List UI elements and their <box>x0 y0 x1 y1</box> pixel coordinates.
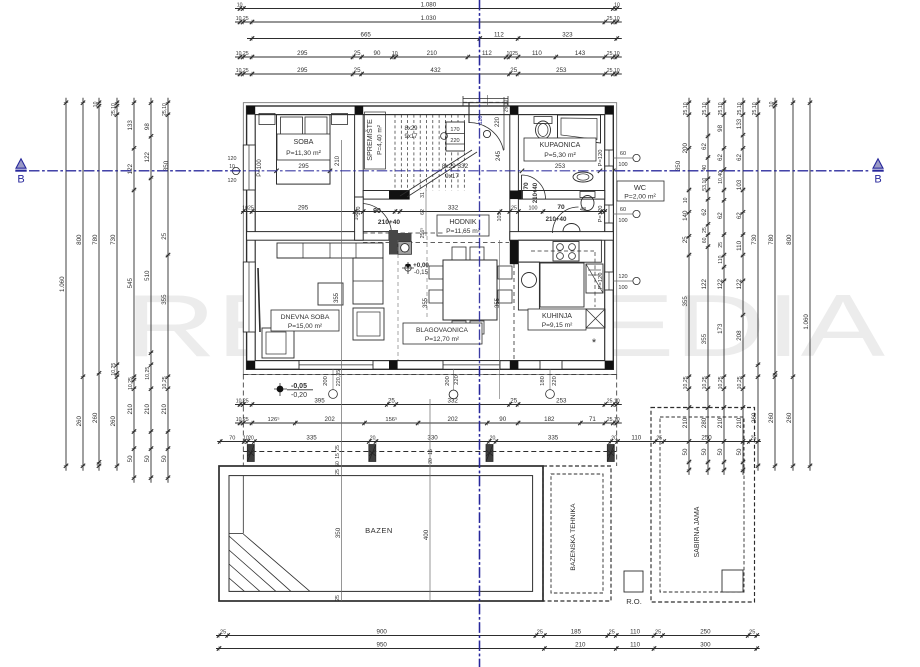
svg-text:25: 25 <box>220 630 226 636</box>
interior dim chain <box>241 205 607 214</box>
svg-text:25,10: 25,10 <box>162 103 168 116</box>
coffee table <box>318 283 343 305</box>
svg-text:KUPAONICA: KUPAONICA <box>540 142 581 149</box>
svg-text:355: 355 <box>701 333 708 344</box>
armchair <box>353 308 384 340</box>
svg-text:25: 25 <box>161 232 168 239</box>
kupaonica door <box>522 175 546 199</box>
svg-text:25: 25 <box>354 67 361 74</box>
svg-text:202: 202 <box>448 416 459 423</box>
svg-text:B: B <box>874 174 881 186</box>
svg-text:25: 25 <box>510 398 517 405</box>
svg-text:122: 122 <box>717 279 724 290</box>
right dim chain R6 <box>768 98 777 471</box>
svg-text:HODNIK: HODNIK <box>449 219 477 226</box>
column <box>355 106 364 115</box>
svg-text:110: 110 <box>630 642 640 649</box>
axis B-B horizontal <box>29 170 869 172</box>
wc door <box>553 207 579 233</box>
svg-text:25: 25 <box>656 436 662 442</box>
svg-text:25: 25 <box>702 227 708 233</box>
sabirna jama shaft <box>722 570 743 592</box>
svg-text:730: 730 <box>110 234 117 245</box>
svg-text:280: 280 <box>701 417 708 428</box>
svg-text:122: 122 <box>144 151 151 162</box>
kitchen island <box>540 263 584 307</box>
pool dim verticals <box>341 140 343 601</box>
svg-text:25: 25 <box>655 630 661 636</box>
svg-text:9x17: 9x17 <box>404 134 418 140</box>
entry door <box>468 102 470 123</box>
svg-text:260: 260 <box>786 412 793 423</box>
svg-text:105: 105 <box>497 213 503 222</box>
svg-text:25: 25 <box>749 630 755 636</box>
svg-text:355: 355 <box>334 292 340 303</box>
top dim chain 4 <box>235 50 622 59</box>
svg-text:8x29 332: 8x29 332 <box>442 163 469 170</box>
column <box>605 361 614 370</box>
svg-text:110: 110 <box>736 240 743 250</box>
svg-text:50: 50 <box>717 448 724 455</box>
sofa <box>277 243 383 258</box>
wall wc bottom / kitchen top <box>510 232 614 241</box>
column <box>247 232 256 241</box>
svg-text:140: 140 <box>682 210 689 221</box>
column <box>389 361 398 370</box>
svg-text:25,10: 25,10 <box>737 102 743 115</box>
svg-text:9x17: 9x17 <box>445 173 459 180</box>
svg-text:20: 20 <box>370 436 376 442</box>
svg-text:210+40: 210+40 <box>378 219 401 226</box>
svg-text:800: 800 <box>786 234 793 245</box>
svg-text:220: 220 <box>454 375 460 385</box>
left dim chain L6 <box>144 98 153 483</box>
svg-text:15: 15 <box>428 449 434 455</box>
door soba <box>355 197 364 240</box>
window kitchen bottom <box>540 361 562 370</box>
svg-text:10: 10 <box>392 51 398 57</box>
svg-text:15: 15 <box>335 453 341 459</box>
fridge <box>586 264 603 293</box>
svg-text:110: 110 <box>532 50 542 57</box>
svg-text:50: 50 <box>682 448 689 455</box>
svg-text:98: 98 <box>717 124 724 131</box>
column <box>247 106 256 115</box>
terrace dashed right <box>616 375 618 467</box>
house outer insulation <box>243 103 616 375</box>
kupaonica toilet <box>534 117 552 124</box>
svg-text:112: 112 <box>494 32 504 39</box>
svg-text:100: 100 <box>618 162 627 168</box>
svg-text:210+40: 210+40 <box>546 216 567 223</box>
terrace dashed bottom <box>243 374 616 376</box>
house outer wall <box>247 106 614 369</box>
right dim chain R4 <box>736 98 745 475</box>
svg-text:10: 10 <box>683 197 689 203</box>
svg-text:P=11,30 m²: P=11,30 m² <box>286 150 322 157</box>
svg-text:25,10: 25,10 <box>111 103 117 116</box>
svg-text:105: 105 <box>354 212 360 221</box>
bath sink <box>573 172 593 182</box>
bed <box>277 115 331 185</box>
svg-text:250: 250 <box>701 435 712 442</box>
wc toilet <box>580 192 595 198</box>
column <box>355 361 364 370</box>
svg-text:1025: 1025 <box>507 51 519 57</box>
svg-text:253: 253 <box>556 67 567 74</box>
svg-text:295: 295 <box>297 67 308 74</box>
pool steps <box>229 476 310 592</box>
svg-text:395: 395 <box>314 398 325 405</box>
svg-text:SPREMIŠTE: SPREMIŠTE <box>365 119 374 161</box>
svg-text:323: 323 <box>562 32 573 39</box>
svg-text:60: 60 <box>620 207 626 213</box>
svg-text:335: 335 <box>306 435 317 442</box>
right dim chain R7 <box>786 98 795 471</box>
svg-text:50: 50 <box>127 455 134 462</box>
axis marker right <box>873 159 883 168</box>
svg-text:210: 210 <box>682 417 689 428</box>
svg-text:P=12,70 m²: P=12,70 m² <box>425 336 460 343</box>
column <box>247 361 256 370</box>
svg-text:220: 220 <box>495 116 501 127</box>
svg-text:202: 202 <box>325 416 336 423</box>
dnevna label <box>271 310 339 331</box>
svg-text:53,10: 53,10 <box>702 178 708 191</box>
svg-text:62: 62 <box>736 154 743 161</box>
window dnevna left <box>243 262 255 332</box>
entry landing <box>463 102 508 104</box>
svg-text:180: 180 <box>540 376 546 386</box>
svg-text:BAZEN: BAZEN <box>365 526 393 535</box>
svg-text:43: 43 <box>580 207 586 213</box>
svg-text:P=15,00 m²: P=15,00 m² <box>288 323 323 330</box>
svg-text:10: 10 <box>237 3 243 9</box>
svg-text:730: 730 <box>751 234 758 245</box>
svg-text:25: 25 <box>335 595 341 601</box>
wc label <box>617 181 664 201</box>
svg-text:110: 110 <box>631 435 641 442</box>
svg-text:50: 50 <box>161 455 168 462</box>
svg-text:10,25: 10,25 <box>236 68 249 74</box>
svg-text:170: 170 <box>450 127 459 133</box>
svg-text:31: 31 <box>420 192 426 198</box>
pergola line <box>243 451 616 453</box>
svg-text:185: 185 <box>571 629 582 636</box>
svg-text:P=120: P=120 <box>598 150 604 167</box>
tv <box>258 268 260 332</box>
svg-text:70: 70 <box>229 436 235 442</box>
top dim chain 1 <box>235 2 622 11</box>
svg-text:210: 210 <box>575 642 586 649</box>
svg-text:220: 220 <box>552 376 558 386</box>
right dim chain R8 <box>803 98 812 471</box>
svg-text:25: 25 <box>354 50 361 57</box>
pool inner <box>229 476 533 592</box>
svg-text:295: 295 <box>298 163 309 170</box>
svg-text:350: 350 <box>163 160 170 171</box>
dishwasher X <box>586 309 605 328</box>
svg-text:-0,15: -0,15 <box>414 269 429 276</box>
svg-text:WC: WC <box>634 183 647 192</box>
svg-text:200: 200 <box>323 376 329 386</box>
svg-text:10,25: 10,25 <box>236 417 249 423</box>
svg-text:25: 25 <box>682 236 689 243</box>
svg-text:300: 300 <box>700 642 711 649</box>
R.O. box <box>624 571 643 592</box>
svg-text:350: 350 <box>335 527 342 538</box>
svg-text:10,25: 10,25 <box>683 376 689 389</box>
svg-text:110: 110 <box>718 255 724 263</box>
svg-text:220,35: 220,35 <box>336 370 342 387</box>
svg-text:210: 210 <box>427 50 438 57</box>
window right wall <box>605 272 614 290</box>
wall below stairs <box>363 191 409 200</box>
svg-text:120: 120 <box>618 274 627 280</box>
stair cut line <box>400 150 472 196</box>
bathtub <box>558 115 601 143</box>
svg-text:10,25: 10,25 <box>718 376 724 389</box>
left dim chain L3 <box>92 98 101 471</box>
pergola post <box>369 445 376 462</box>
svg-text:P=9,15 m²: P=9,15 m² <box>542 322 573 329</box>
svg-text:10: 10 <box>614 3 620 9</box>
svg-text:10,25: 10,25 <box>737 376 743 389</box>
svg-text:62: 62 <box>736 212 743 219</box>
svg-text:432: 432 <box>430 67 441 74</box>
kupaonica label <box>524 138 596 161</box>
svg-text:20: 20 <box>428 458 434 464</box>
chain below house 1 <box>235 398 622 407</box>
svg-text:210: 210 <box>127 404 134 415</box>
svg-text:100: 100 <box>618 285 627 291</box>
svg-text:90: 90 <box>499 416 506 423</box>
house inner wall face <box>255 115 605 361</box>
left dim chain L4 <box>110 98 119 471</box>
hodnik label <box>437 215 489 236</box>
svg-text:25: 25 <box>335 445 341 451</box>
svg-text:10,25: 10,25 <box>128 377 134 390</box>
window right wall <box>605 150 614 166</box>
chain below house 2 <box>235 416 622 425</box>
svg-text:62: 62 <box>420 209 426 215</box>
terrace dashed left <box>242 375 244 467</box>
svg-text:25,10: 25,10 <box>607 68 620 74</box>
svg-text:P=2,00 m²: P=2,00 m² <box>624 194 656 201</box>
chair lower left <box>262 328 294 358</box>
svg-text:900: 900 <box>377 629 388 636</box>
sabirna jama outer <box>651 408 755 603</box>
wc sink <box>563 224 580 232</box>
svg-text:25,10: 25,10 <box>607 16 620 22</box>
svg-text:10: 10 <box>93 101 99 107</box>
svg-text:156⁵: 156⁵ <box>385 416 398 423</box>
right dim chain R1 <box>682 98 691 475</box>
wall kitchen/dining lower part <box>510 240 519 264</box>
svg-text:25,10: 25,10 <box>752 102 758 115</box>
svg-text:210: 210 <box>144 404 151 415</box>
svg-text:122: 122 <box>701 279 708 290</box>
svg-text:355: 355 <box>423 297 429 308</box>
svg-text:SOBA: SOBA <box>294 137 314 146</box>
wall soba/spremiste <box>355 115 364 197</box>
svg-text:62: 62 <box>717 212 724 219</box>
left dim chain L1 <box>59 98 68 471</box>
svg-text:332: 332 <box>448 398 459 405</box>
svg-text:25,10: 25,10 <box>607 417 620 423</box>
svg-text:-0,20: -0,20 <box>291 392 307 399</box>
svg-text:400: 400 <box>423 529 430 540</box>
svg-text:25: 25 <box>609 630 615 636</box>
svg-text:330: 330 <box>427 435 438 442</box>
svg-text:210+40: 210+40 <box>533 182 539 203</box>
svg-text:173: 173 <box>717 323 724 334</box>
hodnik dashed beams <box>363 232 445 234</box>
svg-text:10,25: 10,25 <box>702 376 708 389</box>
nightstand left <box>259 114 275 125</box>
svg-text:25,10: 25,10 <box>718 102 724 115</box>
pergola post <box>607 445 614 462</box>
stairs <box>395 115 464 191</box>
svg-text:62: 62 <box>701 208 708 215</box>
svg-text:143: 143 <box>575 50 586 57</box>
svg-text:25: 25 <box>510 67 517 74</box>
window right wall <box>605 205 614 223</box>
right dim chain R2 <box>701 98 710 475</box>
svg-text:25,10: 25,10 <box>683 102 689 115</box>
svg-text:25: 25 <box>335 469 341 475</box>
column <box>605 106 614 115</box>
svg-text:25,10: 25,10 <box>504 100 510 113</box>
top dim chain 3 <box>247 32 622 41</box>
svg-text:120: 120 <box>228 178 237 184</box>
wall soba lower / dnevna top <box>247 232 389 241</box>
svg-text:253: 253 <box>556 398 567 405</box>
svg-text:25: 25 <box>511 206 517 212</box>
svg-text:200: 200 <box>445 376 451 386</box>
svg-text:40: 40 <box>702 165 708 171</box>
svg-text:110: 110 <box>630 629 640 636</box>
svg-text:60: 60 <box>620 151 626 157</box>
svg-text:245: 245 <box>496 150 502 161</box>
svg-text:950: 950 <box>377 642 388 649</box>
svg-text:260: 260 <box>92 412 99 423</box>
svg-text:545: 545 <box>127 277 134 288</box>
svg-text:10,25: 10,25 <box>236 399 249 405</box>
svg-text:BAZENSKA TEHNIKA: BAZENSKA TEHNIKA <box>570 503 577 571</box>
bazenska tehnika outer <box>543 466 611 601</box>
svg-text:10,25: 10,25 <box>236 51 249 57</box>
nightstand right <box>332 114 348 125</box>
hodnik interior dim line <box>425 188 427 236</box>
svg-text:355: 355 <box>682 296 689 307</box>
svg-text:P=100: P=100 <box>257 159 263 177</box>
kitchen counter <box>518 240 601 262</box>
svg-text:1025: 1025 <box>242 206 254 212</box>
svg-text:295: 295 <box>298 205 309 212</box>
svg-text:250: 250 <box>700 629 711 636</box>
svg-text:50: 50 <box>701 448 708 455</box>
svg-text:98: 98 <box>144 123 151 130</box>
svg-text:-0,05: -0,05 <box>291 383 307 390</box>
axis overdraw <box>29 170 869 172</box>
svg-text:P=11,65 m²: P=11,65 m² <box>446 228 481 235</box>
kuhinja label <box>528 309 586 330</box>
svg-text:1.060: 1.060 <box>59 276 66 292</box>
svg-text:20: 20 <box>490 436 496 442</box>
left dim chain L2 <box>76 98 85 471</box>
svg-text:P=120: P=120 <box>598 206 604 223</box>
svg-text:665: 665 <box>361 32 372 39</box>
svg-text:62: 62 <box>701 143 708 150</box>
svg-text:253: 253 <box>555 163 566 170</box>
svg-text:10,25: 10,25 <box>145 367 151 380</box>
svg-text:25: 25 <box>388 398 395 405</box>
svg-text:SABIRNA JAMA: SABIRNA JAMA <box>694 506 701 557</box>
svg-text:62: 62 <box>717 154 724 161</box>
chain pergola/pool <box>217 435 761 444</box>
svg-text:60: 60 <box>702 237 708 243</box>
wall kupaonica/wc <box>518 191 604 200</box>
soba label <box>277 134 330 160</box>
svg-text:1.060: 1.060 <box>803 314 810 330</box>
bottom chain 2 <box>216 642 760 651</box>
window dnevna bottom <box>299 361 373 370</box>
svg-text:10,25: 10,25 <box>111 363 117 376</box>
dining table <box>443 260 497 320</box>
axis marker left <box>16 159 26 168</box>
column <box>510 191 519 200</box>
svg-text:780: 780 <box>92 234 99 245</box>
svg-text:20: 20 <box>248 436 254 442</box>
left dim chain L7 <box>161 98 170 483</box>
pergola post <box>247 445 254 462</box>
top dim chain 5 <box>235 67 622 76</box>
svg-text:260: 260 <box>76 416 83 427</box>
svg-text:90: 90 <box>374 50 381 57</box>
svg-text:70: 70 <box>523 182 530 190</box>
svg-text:70: 70 <box>557 204 565 211</box>
svg-text:335: 335 <box>548 435 559 442</box>
svg-text:10: 10 <box>769 101 775 107</box>
svg-text:50: 50 <box>144 455 151 462</box>
svg-text:355: 355 <box>495 297 501 308</box>
svg-text:210: 210 <box>161 404 168 415</box>
svg-text:P=4,40 m²: P=4,40 m² <box>377 125 384 155</box>
svg-text:100: 100 <box>618 218 627 224</box>
svg-text:25: 25 <box>718 242 724 248</box>
svg-text:510: 510 <box>144 270 151 281</box>
svg-text:25,10: 25,10 <box>607 399 620 405</box>
axis vertical <box>479 0 481 667</box>
svg-text:10,40: 10,40 <box>718 171 724 184</box>
right dim chain R5 <box>751 98 760 471</box>
svg-text:103: 103 <box>736 179 743 190</box>
right dim chain R3 <box>717 98 726 475</box>
svg-text:8x29: 8x29 <box>404 126 418 132</box>
svg-text:220: 220 <box>450 138 459 144</box>
svg-text:DNEVNA SOBA: DNEVNA SOBA <box>281 314 330 321</box>
svg-text:50: 50 <box>335 461 341 467</box>
kitchen sink <box>518 262 539 310</box>
svg-text:295: 295 <box>297 50 308 57</box>
svg-text:25: 25 <box>537 630 543 636</box>
window dining bottom <box>443 361 500 370</box>
column <box>510 106 519 115</box>
svg-text:210: 210 <box>717 417 724 428</box>
svg-text:800: 800 <box>76 234 83 245</box>
svg-text:122: 122 <box>736 279 743 290</box>
